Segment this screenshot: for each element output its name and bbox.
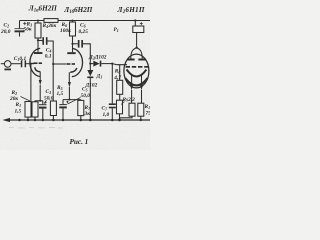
output tube U2 envelope (124, 54, 149, 88)
svg-text:20к: 20к (9, 96, 18, 102)
resistor R10 cathode B (output tube) (138, 103, 144, 120)
triode U1b anode (67, 44, 75, 54)
resistor R8 (grid, output tube) (117, 65, 123, 95)
triode U1b grid (67, 63, 75, 65)
output tube U2 cathodes (127, 69, 147, 76)
resistor cathode A (output tube) (129, 103, 135, 116)
triode U1b envelope (72, 48, 83, 76)
svg-text:С10,1: С10,1 (14, 56, 27, 62)
svg-text:Д102: Д102 (85, 83, 98, 89)
node R9 ground (118, 119, 121, 122)
triode U1a envelope (30, 48, 40, 76)
node anode stage 1 (37, 39, 39, 41)
output tube U2 grid dashes (126, 66, 148, 68)
wire cathode 2 (63, 99, 81, 101)
plus mark C5 (66, 101, 68, 103)
svg-text:0,1: 0,1 (45, 54, 52, 60)
node R10 ground (140, 119, 142, 121)
svg-text:0,25: 0,25 (79, 29, 89, 35)
capacitor C5 (cathode bypass stage 2) (59, 100, 67, 120)
capacitor C2 (electrolytic from rail corner) (15, 21, 25, 37)
plus mark C3 (44, 101, 46, 103)
svg-text:75: 75 (146, 111, 151, 117)
leader line R9 label (121, 102, 125, 105)
svg-text:Д1: Д1 (96, 74, 103, 80)
node cathode 1 junction (39, 100, 41, 102)
svg-text:3к: 3к (84, 111, 91, 117)
resistor R4 (series, in rail) (44, 19, 58, 23)
plus mark P1 relay (140, 22, 143, 25)
node DC grid (111, 63, 113, 65)
svg-text:R92,2: R92,2 (122, 97, 136, 103)
svg-text:20,0: 20,0 (0, 29, 11, 35)
diode D1 (shunt to ground) (87, 64, 93, 120)
wire ground rail (5, 119, 150, 121)
capacitor C7 (filter) (109, 64, 116, 120)
resistor R1 (grid leak stage 1) (25, 64, 31, 120)
ground junction dots (18, 119, 113, 122)
svg-text:50,0: 50,0 (81, 93, 91, 99)
svg-text:56к: 56к (24, 27, 32, 33)
wire to output tube grid (112, 64, 127, 65)
wire top B+ rail right segment (58, 20, 150, 22)
svg-text:Р1: Р1 (114, 27, 119, 33)
plus mark C2 (23, 22, 26, 25)
svg-text:С2: С2 (4, 23, 10, 29)
svg-text:1,5: 1,5 (57, 91, 64, 97)
print bleed artifacts (9, 126, 63, 129)
capacitor C1 (input coupling) (21, 60, 34, 67)
output tube U2 cathode leads with arrows (130, 75, 143, 104)
ground arrow left end (3, 118, 11, 122)
node cathode 2 junction (68, 99, 70, 101)
svg-text:R436к: R436к (42, 23, 57, 29)
leader line C3 label (45, 100, 47, 104)
resistor R9 (117, 94, 123, 120)
svg-text:Л1б6Н2П: Л1б6Н2П (63, 6, 93, 15)
svg-text:R1: R1 (15, 102, 22, 108)
capacitor C6 (detector coupling) (73, 40, 91, 64)
input jack terminal (1, 61, 21, 71)
resistor R5 (grid leak stage 2) (50, 64, 56, 120)
triode U1b cathode (68, 68, 77, 100)
triode U1a grid (31, 62, 42, 64)
svg-text:100к: 100к (60, 28, 71, 34)
svg-text:R8: R8 (114, 69, 121, 75)
svg-text:R10: R10 (144, 104, 151, 110)
node grid stage 2 (52, 63, 54, 65)
output tube U2 anodes (127, 59, 146, 61)
svg-text:1,5: 1,5 (15, 108, 22, 114)
capacitor C4 (interstage coupling) (38, 37, 53, 64)
diode D2 (series) (90, 61, 112, 67)
svg-text:Рис. 1: Рис. 1 (70, 138, 89, 146)
svg-text:Л1а6Н2П: Л1а6Н2П (28, 4, 58, 13)
svg-text:50,0: 50,0 (44, 96, 54, 102)
triode U1a anode (34, 40, 42, 54)
svg-text:С6: С6 (80, 23, 86, 29)
resistor R6 (plate load stage 2) (70, 20, 76, 44)
leader line R2 label (21, 97, 31, 102)
wire R9 to cathode resistor (120, 116, 133, 118)
resistor R2 (cathode, stage 1) (32, 101, 43, 120)
svg-text:Л26Н1П: Л26Н1П (117, 6, 145, 15)
svg-text:1,0: 1,0 (103, 112, 110, 118)
node grid stage 1 (30, 63, 32, 65)
svg-text:Д2Д102: Д2Д102 (88, 55, 107, 61)
resistor R7 (cathode stage 2) (78, 100, 84, 120)
node anode stage 2 (71, 43, 73, 45)
svg-text:С3: С3 (46, 89, 52, 95)
resistor R3 (plate load, stage 1) (35, 20, 41, 41)
capacitor C3 (cathode bypass stage 1) (39, 101, 47, 120)
node anode junction output tube (136, 47, 138, 49)
triode U1a cathode (35, 67, 42, 100)
leader line C5 label (68, 98, 81, 105)
wire top B+ rail left segment (20, 20, 45, 22)
output tube U2 anode leads (131, 48, 142, 59)
wire grid stage 2 (53, 63, 66, 65)
relay P1 coil (133, 21, 144, 48)
node detector input (89, 63, 91, 65)
svg-text:4,7: 4,7 (113, 75, 121, 81)
output tube U2 envelope bottom shading (125, 78, 147, 85)
node relay tap on rail (134, 19, 136, 21)
